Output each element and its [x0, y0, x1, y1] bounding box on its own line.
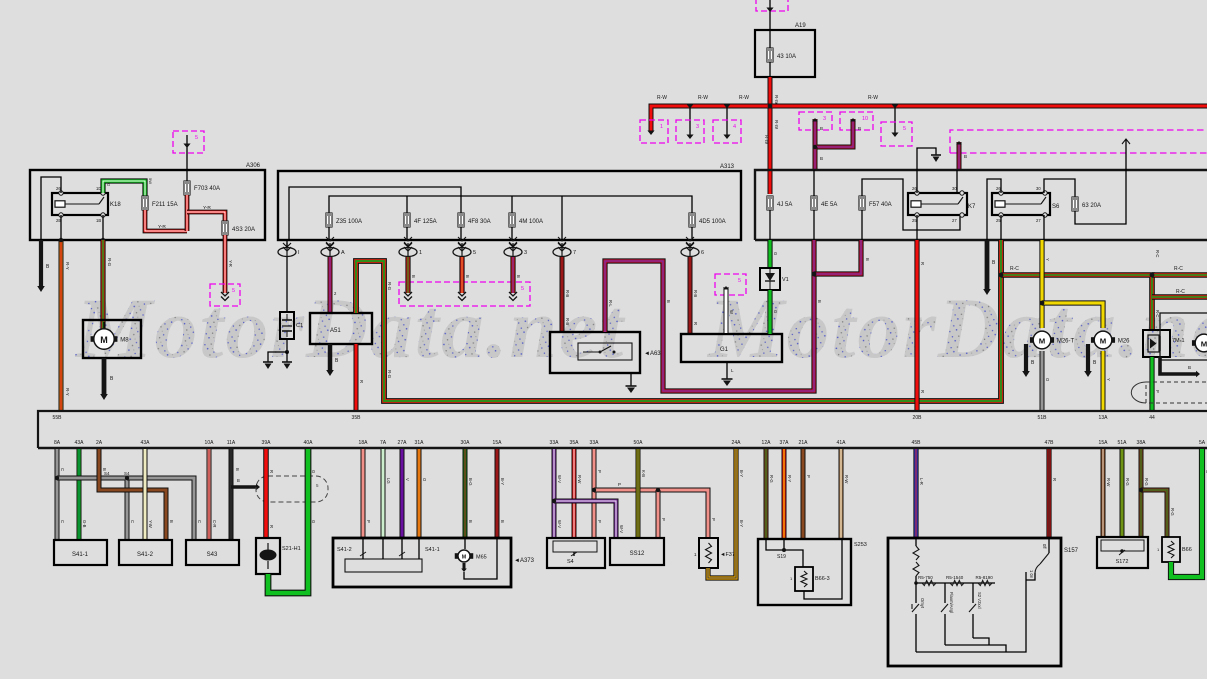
- label R-W 1: [657, 95, 667, 101]
- svg-text:R-C: R-C: [1155, 310, 1160, 317]
- svg-text:R-W: R-W: [774, 95, 779, 105]
- svg-text:5: 5: [195, 135, 198, 141]
- node C106 (dashed): [840, 112, 873, 130]
- svg-text:R: R: [269, 470, 274, 473]
- wire R-W to S253: [841, 449, 849, 539]
- svg-text:Y: Y: [1045, 258, 1050, 261]
- wire A313 rail2: [329, 196, 692, 240]
- svg-text:5: 5: [521, 286, 524, 292]
- svg-text:R5-8190: R5-8190: [976, 575, 994, 580]
- ground lead M26: [1084, 344, 1097, 377]
- svg-text:R-C: R-C: [1176, 289, 1185, 295]
- svg-text:B: B: [500, 520, 505, 523]
- wire C1 to grounds: [268, 339, 289, 362]
- fuse box right: [755, 170, 1207, 240]
- fuse 4M 100A: [509, 213, 543, 240]
- svg-text:R: R: [359, 380, 364, 383]
- svg-text:Z35 100A: Z35 100A: [336, 219, 362, 225]
- wire P branch: [592, 482, 716, 538]
- svg-text:R-C: R-C: [1174, 266, 1183, 272]
- wire R-G to M8: [103, 240, 112, 329]
- ECU A51: [310, 313, 372, 344]
- svg-text:B: B: [102, 468, 107, 471]
- junction box S43: [186, 540, 239, 565]
- node top connector (dashed): [756, 0, 788, 11]
- resistor B66: [1157, 537, 1192, 562]
- svg-text:R-G: R-G: [1125, 478, 1130, 486]
- wire W sense into G1: [723, 286, 734, 333]
- wire S6 pin26 lead: [987, 179, 1001, 240]
- node dashed oval: [256, 476, 328, 502]
- svg-text:3: 3: [524, 250, 527, 256]
- svg-text:S19: S19: [777, 554, 786, 560]
- wire C jumper 2: [125, 476, 202, 540]
- svg-text:21A: 21A: [799, 440, 809, 446]
- svg-text:B-Y: B-Y: [739, 520, 744, 527]
- junction A19/bus: [768, 104, 773, 109]
- electric motor M8 box: [83, 320, 141, 358]
- svg-text:M: M: [1039, 336, 1045, 345]
- wire R-W to S172: [1103, 449, 1111, 537]
- svg-text:G: G: [311, 470, 316, 473]
- wire Y M26 to bus 15A: [1103, 351, 1111, 410]
- svg-text:A19: A19: [795, 23, 806, 29]
- label R-W 4: [868, 95, 878, 101]
- wire R-G to S172: [1122, 449, 1130, 537]
- label 44: [1149, 415, 1155, 421]
- svg-text:2A: 2A: [96, 440, 103, 446]
- svg-text:B: B: [666, 300, 671, 303]
- svg-text:24A: 24A: [732, 440, 742, 446]
- wire B below M8: [100, 358, 114, 400]
- resistor R5-1540: [946, 575, 964, 586]
- ground near K7: [931, 155, 941, 162]
- svg-text:3: 3: [696, 124, 699, 130]
- junction R-C 1: [999, 273, 1004, 278]
- wire lead to capacitor C1: [286, 257, 288, 312]
- wire P branch to SS12: [656, 488, 666, 538]
- svg-text:1: 1: [660, 124, 663, 130]
- node CB-1: [399, 237, 422, 257]
- S157 off-on switch: [1026, 538, 1049, 580]
- resistor R5-8190: [976, 575, 994, 586]
- svg-text:R-B: R-B: [565, 318, 570, 325]
- wire B to S43: [231, 449, 240, 540]
- svg-text:35B: 35B: [352, 415, 362, 421]
- svg-text:S21-H1: S21-H1: [282, 546, 301, 552]
- wire V to A373: [402, 449, 410, 538]
- svg-text:50A: 50A: [634, 440, 644, 446]
- wire P2 to S253: [803, 449, 811, 539]
- ground under C1 right: [282, 362, 292, 369]
- resistor F370: [694, 538, 738, 568]
- motor M26-T: [1030, 331, 1075, 349]
- wire R-W power bus: [647, 106, 1207, 135]
- svg-text:27: 27: [1036, 218, 1041, 223]
- svg-text:Y-R: Y-R: [158, 224, 166, 230]
- svg-text:R5-1540: R5-1540: [946, 575, 964, 580]
- fuse box A306: [30, 163, 265, 240]
- wire V-W to S4: [554, 449, 562, 538]
- wire Y-R below 4S3: [221, 235, 233, 301]
- label R-W 3: [739, 95, 749, 101]
- wire R-L trunk A63 to fusebox: [605, 240, 822, 391]
- svg-text:◄A373: ◄A373: [514, 558, 535, 564]
- wire R-B to A373: [497, 449, 505, 538]
- svg-text:B: B: [169, 520, 174, 523]
- wire R-L into fusebox: [813, 145, 823, 170]
- wire R-G to S172 b: [1141, 449, 1149, 537]
- svg-text:30A: 30A: [461, 440, 471, 446]
- svg-text:C1: C1: [296, 323, 303, 329]
- fuse box A313: [278, 164, 741, 240]
- node C105 (dashed): [799, 112, 832, 130]
- wire R to bus 35B: [356, 344, 364, 410]
- svg-text:7A: 7A: [380, 440, 387, 446]
- wire S6 pin30 to fuse 63: [1044, 179, 1075, 197]
- node C101 (dashed) with tap: [640, 120, 668, 143]
- svg-text:P: P: [618, 482, 621, 487]
- svg-text:M: M: [100, 335, 108, 345]
- valve 7M-1: [1143, 330, 1185, 357]
- A373 internal wiring: [464, 538, 497, 579]
- node C108 (dashed) above A306: [173, 131, 204, 181]
- svg-text:G: G: [773, 310, 778, 313]
- fuse Z35 100A: [326, 213, 362, 240]
- fuse 4F8 30A: [458, 213, 491, 240]
- svg-text:R5-750: R5-750: [918, 575, 933, 580]
- svg-text:SS12: SS12: [630, 551, 645, 557]
- S157 switch column 3: [969, 583, 982, 638]
- S157 switch column 2: [941, 583, 954, 645]
- svg-text:R-W: R-W: [774, 120, 779, 130]
- junction box S4: [547, 538, 605, 568]
- svg-text:51A: 51A: [1118, 440, 1128, 446]
- svg-text:M: M: [1201, 339, 1207, 348]
- wire G B66 return: [1171, 449, 1207, 577]
- svg-text:5: 5: [903, 126, 906, 132]
- svg-text:27: 27: [952, 218, 957, 223]
- motor at right edge: [1192, 334, 1207, 352]
- svg-text:B: B: [964, 154, 967, 159]
- wire K-B to SS12: [638, 449, 646, 538]
- wire C-B to A373: [363, 449, 371, 538]
- svg-text:6: 6: [701, 250, 704, 256]
- resistor B66-3: [790, 567, 830, 591]
- svg-text:R-C: R-C: [1155, 250, 1160, 257]
- svg-text:M65: M65: [476, 555, 487, 561]
- svg-text:R-G: R-G: [1170, 508, 1175, 516]
- svg-text:31A: 31A: [415, 440, 425, 446]
- svg-text:R-W: R-W: [577, 475, 582, 483]
- svg-text:10A: 10A: [205, 440, 215, 446]
- svg-text:5A: 5A: [1199, 440, 1206, 446]
- svg-text:B66: B66: [1182, 547, 1192, 553]
- svg-text:R-B: R-B: [693, 290, 698, 297]
- svg-text:P: P: [806, 475, 811, 478]
- svg-text:G1: G1: [720, 347, 729, 353]
- wire R to S157: [1049, 449, 1057, 538]
- fuse 4S3 20A: [222, 221, 255, 235]
- svg-text:R-L: R-L: [608, 300, 613, 307]
- svg-text:41A: 41A: [837, 440, 847, 446]
- svg-text:K-B: K-B: [641, 470, 646, 477]
- svg-text:R-C: R-C: [1010, 266, 1019, 272]
- svg-text:C: C: [197, 520, 202, 523]
- svg-text:18A: 18A: [359, 440, 369, 446]
- svg-text:V: V: [405, 478, 410, 481]
- wire K18 pin1B lead: [59, 215, 105, 242]
- label 55B: [53, 415, 63, 421]
- svg-text:S41-1: S41-1: [425, 547, 440, 553]
- svg-text:4S3 20A: 4S3 20A: [232, 227, 255, 233]
- svg-text:B: B: [865, 258, 870, 261]
- wire R-G trunk A51 to fusebox: [356, 240, 1001, 401]
- svg-text:R-G: R-G: [387, 282, 392, 291]
- svg-text:5: 5: [738, 278, 741, 284]
- wire G-B to S41-1: [79, 449, 87, 540]
- svg-text:R-G: R-G: [107, 258, 112, 267]
- svg-text:39A: 39A: [262, 440, 272, 446]
- svg-text:P: P: [661, 518, 666, 521]
- wire S6 bottoms: [1001, 215, 1044, 240]
- ground bus 2: [38, 447, 1207, 450]
- S157 resistor chain lead: [913, 538, 919, 583]
- junction box S253: [758, 539, 867, 605]
- svg-text:S157: S157: [1064, 548, 1079, 554]
- node CB-6: [681, 237, 704, 257]
- wire R-G to S253: [766, 449, 774, 539]
- node CB-7: [553, 237, 576, 257]
- ground under G1: [722, 379, 733, 386]
- label 5W: [148, 178, 153, 184]
- wire Y-W to S41-2: [145, 449, 153, 540]
- wire B ground lead S6: [983, 240, 996, 295]
- wire K7 pin26 to ground: [917, 148, 936, 193]
- svg-text:R-W: R-W: [698, 95, 708, 101]
- wire P to S4: [594, 449, 602, 538]
- junction box S41-2: [119, 540, 172, 565]
- svg-text:C: C: [130, 520, 135, 523]
- capacitor C1: [280, 312, 303, 339]
- svg-text:37A: 37A: [780, 440, 790, 446]
- svg-text:47B: 47B: [1045, 440, 1055, 446]
- svg-text:4F 125A: 4F 125A: [414, 219, 437, 225]
- svg-text:S43: S43: [207, 552, 218, 558]
- relay K18: [52, 186, 121, 223]
- svg-text:A: A: [341, 250, 345, 256]
- svg-text:Flaum/Angl: Flaum/Angl: [949, 592, 954, 613]
- wire Y-R net F211/F703/4S3: [145, 195, 225, 231]
- svg-text:B: B: [465, 275, 470, 278]
- wire R-W to S4: [574, 449, 582, 538]
- svg-text:4: 4: [733, 124, 736, 130]
- svg-text:B-Y: B-Y: [739, 470, 744, 477]
- svg-text:L-R: L-R: [919, 478, 924, 485]
- svg-text:51B: 51B: [1038, 415, 1048, 421]
- svg-text:B: B: [411, 275, 416, 278]
- svg-text:30: 30: [1036, 186, 1041, 191]
- wire A63 to ground: [630, 373, 632, 386]
- wire R to horn S21-H1: [266, 449, 274, 538]
- fuse F211 15A: [142, 196, 178, 210]
- wire B ground lead below A306: [37, 240, 50, 292]
- wire B from A51: [326, 344, 339, 376]
- svg-text:55B: 55B: [53, 415, 63, 421]
- wire into A19: [766, 0, 773, 30]
- svg-text:5W: 5W: [148, 178, 153, 184]
- svg-text:B: B: [235, 468, 240, 471]
- svg-text:13A: 13A: [1099, 415, 1109, 421]
- diode V1: [760, 268, 789, 290]
- svg-text:4D5 100A: 4D5 100A: [699, 219, 726, 225]
- ground under C1 left: [263, 362, 273, 369]
- ground lead M26-T: [1022, 344, 1035, 377]
- ground bus 1: [38, 411, 1207, 448]
- svg-text:4E 5A: 4E 5A: [821, 202, 837, 208]
- svg-text:B66-3: B66-3: [815, 576, 830, 582]
- svg-text:R-B: R-B: [565, 290, 570, 297]
- wire R-C lower right: [1152, 289, 1207, 297]
- label R-W 2: [698, 95, 708, 101]
- svg-text:M26: M26: [1118, 339, 1130, 345]
- relay K7: [908, 186, 976, 223]
- wire R-C branch right: [1152, 266, 1207, 275]
- svg-text:M26-T: M26-T: [1057, 339, 1075, 345]
- fuse 4D5 100A: [689, 213, 726, 240]
- svg-text:V1: V1: [782, 277, 789, 283]
- fuse F57 40A: [859, 179, 960, 240]
- svg-text:5: 5: [473, 250, 476, 256]
- svg-text:R-W: R-W: [764, 135, 769, 145]
- svg-text:S4: S4: [104, 471, 110, 476]
- svg-text:7: 7: [573, 250, 576, 256]
- svg-text:63 20A: 63 20A: [1082, 203, 1101, 209]
- wire Y branch to M26: [1040, 301, 1103, 328]
- svg-text:P: P: [366, 520, 371, 523]
- wire stub 1 into C110: [404, 257, 416, 301]
- svg-text:3: 3: [823, 116, 826, 122]
- svg-text:38A: 38A: [1137, 440, 1147, 446]
- svg-text:R-G: R-G: [769, 475, 774, 483]
- fuse 4J 5A: [767, 196, 792, 240]
- fuse 63 20A: [1072, 197, 1101, 211]
- node C104 (dashed) with tap: [881, 105, 912, 147]
- svg-text:F211 15A: F211 15A: [152, 202, 178, 208]
- svg-text:A51: A51: [330, 328, 341, 334]
- svg-text:45B: 45B: [912, 440, 922, 446]
- fuse 43 10A: [767, 30, 796, 77]
- svg-text:4M 100A: 4M 100A: [519, 219, 543, 225]
- wire L-R to S157: [916, 449, 924, 538]
- svg-text:44: 44: [1149, 415, 1155, 421]
- svg-text:G: G: [773, 252, 778, 255]
- wire stub 3 into C110: [509, 257, 521, 301]
- wire BR elbow to S41-2: [99, 449, 174, 540]
- svg-text:B-G: B-G: [468, 478, 473, 485]
- wire R-B into G1: [690, 257, 698, 334]
- fuse 4E 5A: [811, 170, 837, 240]
- svg-text:27A: 27A: [398, 440, 408, 446]
- S157 nested wiring: [916, 572, 1026, 652]
- generator G1: [681, 334, 782, 362]
- svg-text:43A: 43A: [75, 440, 85, 446]
- S253 internal return: [804, 539, 842, 599]
- svg-text:Y-R: Y-R: [228, 260, 233, 267]
- node C111 (dashed): [715, 274, 746, 295]
- svg-text:R: R: [1052, 478, 1057, 481]
- label 51B: [1038, 415, 1048, 421]
- wire R-C trunk: [1001, 250, 1160, 330]
- svg-text:W: W: [729, 310, 734, 314]
- svg-text:B: B: [516, 275, 521, 278]
- node C112 black dashed: [1131, 382, 1207, 403]
- node C102 (dashed) with tap: [676, 105, 704, 144]
- svg-text:C-R: C-R: [212, 520, 217, 527]
- svg-text:◄A63: ◄A63: [644, 351, 661, 357]
- svg-text:C: C: [60, 468, 65, 471]
- svg-text:20B: 20B: [913, 415, 923, 421]
- A373 internal contacts: [345, 538, 422, 572]
- bus 2 pin labels: [54, 440, 1206, 446]
- svg-text:15A: 15A: [1099, 440, 1109, 446]
- wire C jumper: [55, 476, 135, 540]
- wire R-W vertical from A19: [764, 77, 779, 194]
- svg-text:R-Y: R-Y: [65, 388, 70, 396]
- wire C-R to S43: [209, 449, 217, 540]
- svg-text:33A: 33A: [590, 440, 600, 446]
- svg-text:F57 40A: F57 40A: [869, 202, 892, 208]
- wire R-L jumper C105-C106: [812, 118, 861, 147]
- svg-text:1: 1: [419, 250, 422, 256]
- svg-text:B: B: [468, 520, 473, 523]
- S157 switch column 1: [912, 583, 925, 652]
- wire R-G branch to B66: [1139, 488, 1175, 537]
- svg-text:43 10A: 43 10A: [777, 54, 796, 60]
- svg-text:G: G: [311, 520, 316, 523]
- svg-text:S253: S253: [854, 542, 867, 548]
- svg-text:R-G: R-G: [1144, 478, 1149, 486]
- svg-text:35A: 35A: [570, 440, 580, 446]
- svg-text:B: B: [820, 156, 823, 161]
- node C103 (dashed) with tap: [713, 105, 741, 144]
- label S4 b: [124, 471, 130, 476]
- junction box SS12: [610, 538, 664, 565]
- wire G diode to G1: [770, 290, 778, 334]
- svg-text:R-W: R-W: [1106, 478, 1111, 486]
- svg-text:S6: S6: [1052, 204, 1060, 210]
- svg-text:A306: A306: [246, 163, 261, 169]
- wire G-R to A373: [465, 449, 473, 538]
- switch unit S157: [888, 538, 1079, 666]
- fuse box A19: [755, 23, 815, 77]
- svg-text:Y: Y: [1106, 378, 1111, 381]
- wire fuse63 to C107 tap: [1075, 139, 1130, 224]
- node CB-3: [504, 237, 527, 257]
- svg-text:B: B: [1188, 365, 1191, 370]
- svg-text:LG: LG: [386, 478, 391, 484]
- svg-text:40A: 40A: [304, 440, 314, 446]
- wire K18 pin26 to ground lead: [41, 177, 61, 240]
- svg-text:S4: S4: [567, 559, 574, 565]
- label S4 a: [104, 471, 110, 476]
- control unit A63: [550, 332, 661, 373]
- svg-text:R-W: R-W: [739, 95, 749, 101]
- svg-text:S41-2: S41-2: [337, 547, 352, 553]
- svg-text:12A: 12A: [762, 440, 772, 446]
- svg-text:4F8 30A: 4F8 30A: [468, 219, 491, 225]
- washer unit box: [1160, 313, 1207, 360]
